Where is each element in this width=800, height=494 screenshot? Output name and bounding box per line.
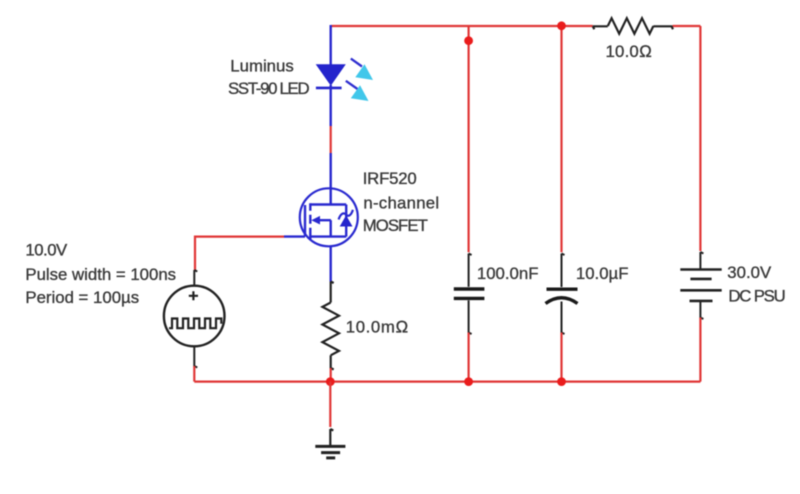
svg-text:10.0mΩ: 10.0mΩ: [346, 318, 409, 337]
wire red drain segment: [330, 126, 332, 153]
wire pulse source top: [194, 236, 196, 271]
wire blue drain to MOSFET: [330, 153, 332, 205]
wire cap C2 bottom: [560, 333, 562, 382]
wire battery bottom: [699, 318, 701, 382]
label LED: [228, 57, 309, 99]
svg-text:IRF520: IRF520: [363, 169, 417, 188]
label battery: [727, 263, 784, 306]
svg-text:Pulse width = 100ns: Pulse width = 100ns: [25, 265, 176, 284]
svg-text:MOSFET: MOSFET: [363, 216, 428, 235]
LED D1 Luminus SST-90: [316, 64, 346, 126]
resistor R1 10.0 ohm: [608, 18, 654, 34]
wire top rail: [331, 25, 593, 27]
svg-text:10.0Ω: 10.0Ω: [606, 42, 653, 61]
resistor R2 10.0m ohm: [322, 303, 339, 356]
svg-text:100.0nF: 100.0nF: [477, 264, 539, 283]
capacitor C2 lead bottom: [562, 302, 565, 335]
node junction bottom C2: [557, 377, 566, 386]
capacitor C2 lead top: [562, 254, 565, 288]
resistor R2 10.0m ohm lead top: [331, 282, 334, 303]
wire bottom rail: [194, 381, 700, 383]
LED light arrow 1: [351, 59, 373, 80]
wire gate red: [195, 236, 284, 238]
svg-text:10.0µF: 10.0µF: [576, 264, 629, 283]
svg-text:SST-90 LED: SST-90 LED: [228, 79, 309, 98]
wire resistor to rail: [330, 368, 332, 382]
wire blue anode drop from rail to LED: [330, 25, 332, 65]
label MOSFET: [363, 169, 440, 235]
node junction bottom left: [326, 377, 335, 386]
wire ground drop: [329, 382, 331, 427]
pulse source V1: [164, 286, 225, 347]
capacitor C1 lead bottom: [469, 300, 472, 334]
svg-text:Luminus: Luminus: [230, 57, 293, 76]
wire cap C1 top: [468, 26, 470, 252]
capacitor C2 10.0uF polarized: [546, 289, 578, 303]
capacitor C1 100.0nF: [454, 289, 485, 298]
ground: [315, 446, 345, 458]
svg-text:Period = 100µs: Period = 100µs: [25, 288, 139, 307]
pulse source V1 terminal bottom: [194, 347, 197, 368]
ground lead: [330, 429, 333, 446]
node junction top C1: [464, 36, 473, 45]
battery V2 lead top: [700, 252, 703, 270]
wire cap C2 top: [560, 26, 562, 252]
resistor R1 lead left: [593, 26, 608, 29]
label source params: [25, 241, 176, 308]
battery V2 30V DC PSU: [680, 270, 721, 301]
wire top rail right of resistor: [673, 25, 701, 27]
wire cap C1 bottom: [468, 333, 470, 382]
pulse source V1 terminal top: [194, 270, 197, 286]
wire pulse source bottom: [193, 366, 195, 382]
svg-text:DC PSU: DC PSU: [728, 287, 784, 306]
LED light arrow 2: [346, 81, 369, 101]
node junction top C2: [557, 21, 566, 30]
capacitor C1 lead top: [469, 254, 472, 287]
resistor R1 lead right: [653, 26, 673, 29]
node junction bottom C1: [464, 377, 473, 386]
resistor R2 lead bottom: [331, 355, 334, 369]
wire battery top drop: [699, 26, 701, 251]
svg-text:30.0V: 30.0V: [727, 263, 772, 282]
svg-text:n-channel: n-channel: [363, 194, 439, 213]
MOSFET U1 IRF520: [284, 188, 358, 281]
battery V2 lead bottom: [700, 301, 703, 319]
svg-text:10.0V: 10.0V: [25, 241, 68, 260]
